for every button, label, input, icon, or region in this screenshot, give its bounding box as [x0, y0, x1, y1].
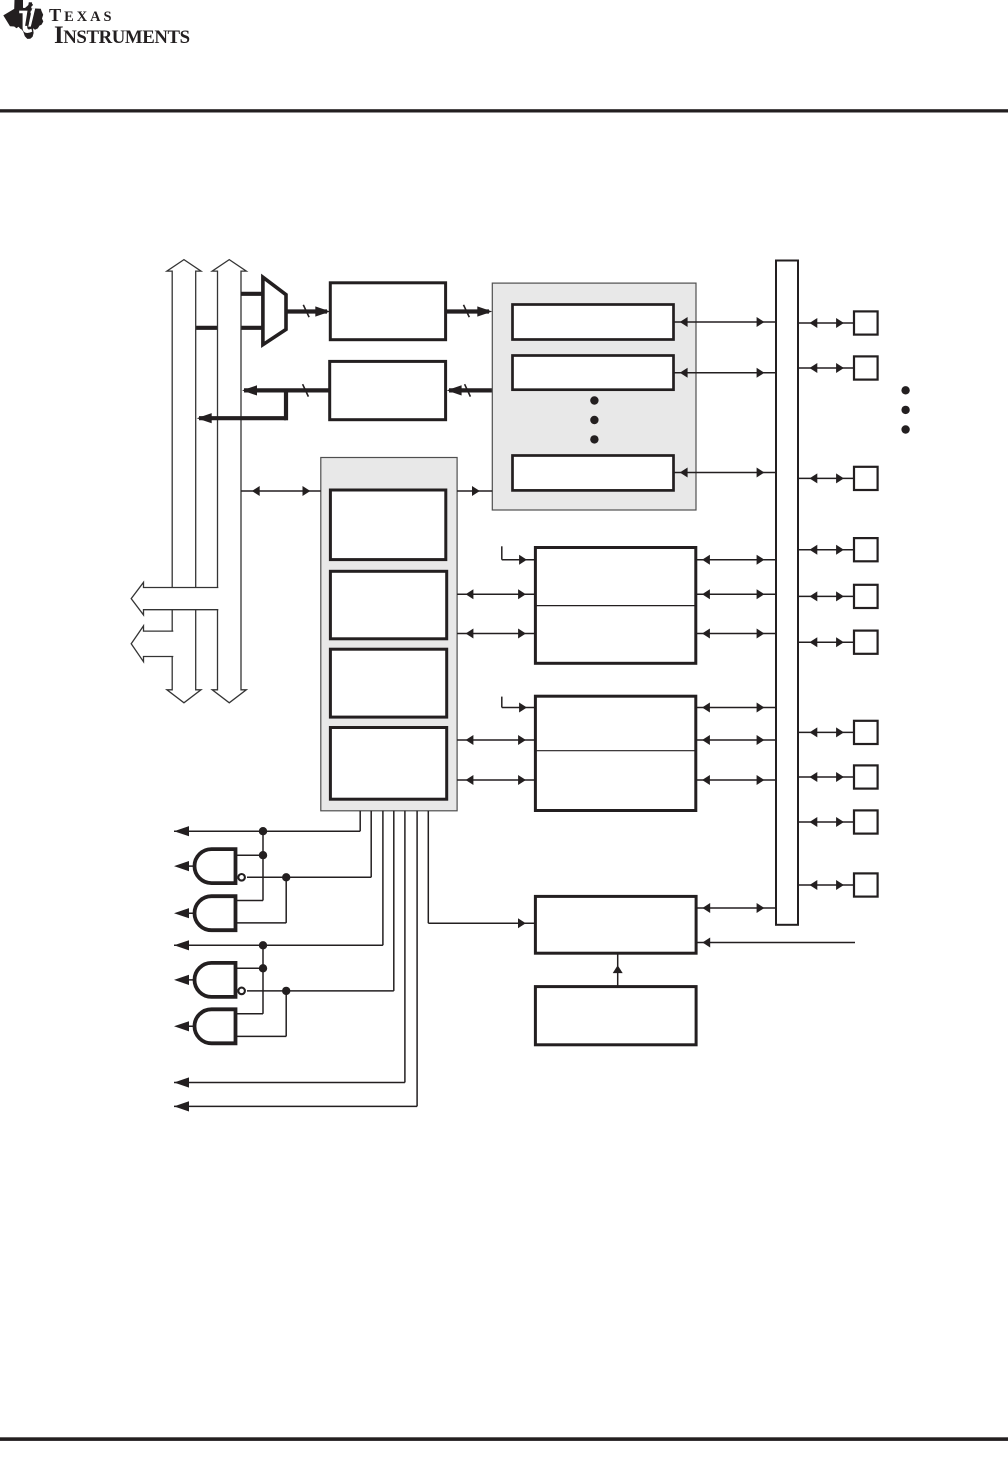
divider line in module B — [535, 750, 695, 752]
wire module A to pad bus (bidirectional) — [696, 633, 776, 635]
control register block 3 — [330, 649, 446, 717]
cell register bit 0 — [513, 305, 674, 340]
wire control line 3 stub down from control logic — [382, 811, 384, 946]
ellipsis dots right of pin squares — [901, 386, 909, 394]
junction dot net3 at gate 3 input — [259, 964, 267, 972]
wire module B to pad bus (bidirectional) — [696, 779, 776, 781]
pin square — [854, 873, 878, 896]
hollow double-headed vertical bus arrow A (address bus) — [167, 260, 201, 703]
footer rule — [0, 1437, 1008, 1441]
wire control line 4 stub down from control logic — [393, 811, 395, 991]
wire control line 4 horizontal to lower NAND gate bubble input — [247, 990, 394, 992]
wire control line 7 down then right into interrupt flag logic — [427, 811, 429, 923]
block input register — [330, 283, 445, 340]
wire port control logic to module A (bidirectional) — [457, 633, 535, 635]
header rule — [0, 109, 1008, 112]
TI logo Texas map glyph — [3, 0, 43, 39]
inverter bubble on gate input — [238, 988, 245, 995]
pin square — [854, 311, 878, 334]
wire gate output to left with arrow — [177, 1025, 195, 1027]
pad logic bus (tall vertical rectangle) — [776, 261, 798, 925]
inverter bubble on gate input — [238, 874, 245, 881]
wire mux upper data input (thick bus) — [241, 292, 264, 296]
wire port control logic to module A (bidirectional) — [457, 593, 535, 595]
wire mux output bus to input register — [286, 309, 327, 313]
wire net3 branch to AND gate 3 top input — [236, 967, 264, 969]
AND gate 1 with inverted lower input (interrupt edge select) — [195, 849, 236, 883]
wire input register output bus to input cells — [446, 309, 489, 313]
pin square — [854, 765, 878, 788]
wire control signal row 2 to left with arrow — [174, 944, 383, 946]
mux symbol (input select) — [263, 277, 286, 345]
AND gate 3 with inverted lower input — [195, 963, 236, 997]
wire net1 to AND gate 2 top input — [236, 900, 264, 902]
pin square — [854, 810, 878, 833]
container port control logic (gray group box) — [321, 458, 457, 811]
wire pad bus to pin square (bidirectional) — [798, 641, 854, 643]
svg-text:INSTRUMENTS: INSTRUMENTS — [54, 22, 190, 49]
bus-width slash on output register bus — [303, 384, 309, 396]
wire gate output to left with arrow — [177, 912, 195, 914]
wire net2 to AND gate 2 bottom input — [236, 922, 287, 924]
cell register bit 1 — [513, 356, 674, 390]
ellipsis dots inside input cells — [590, 396, 598, 404]
hollow horizontal arrow to MAB (merges from bus arrow A) — [131, 626, 174, 662]
pin square — [854, 538, 878, 561]
control register block 2 — [330, 571, 446, 639]
block output register — [330, 361, 446, 419]
pin square — [854, 467, 878, 490]
wire port control logic to module B (bidirectional) — [457, 779, 535, 781]
wire pad bus to pin square (bidirectional) — [798, 367, 854, 369]
wire pad bus to pin square (bidirectional) — [798, 322, 854, 324]
wire control signal row 1 to left with arrow — [174, 830, 360, 832]
wire external input into interrupt flag logic from right — [696, 942, 855, 944]
wire net4 to AND gate 4 bottom input — [236, 1035, 287, 1037]
wire output register to data bus arrow B (thick bus) — [244, 388, 330, 392]
wire pad bus to pin square (bidirectional) — [798, 595, 854, 597]
wire interrupt enable to flag logic with up arrow — [617, 954, 619, 987]
wire port control logic to module B (bidirectional) — [457, 739, 535, 741]
wire module B to pad bus (bidirectional) — [696, 739, 776, 741]
wire interrupt flag logic to pad bus (bidirectional) — [696, 907, 776, 909]
wire gate output to left with arrow — [177, 865, 195, 867]
block peripheral module A (two-section box) — [535, 548, 695, 664]
wire mux lower data input (thick bus, passes behind address arrow) — [196, 326, 264, 330]
wire module B to pad bus (bidirectional) — [696, 707, 776, 709]
wire control line 2 stub down from control logic — [370, 811, 372, 878]
wire net2 vertical from bubble line down — [285, 877, 287, 923]
wire cell register to pad bus (bidirectional) — [674, 321, 777, 323]
wire clock stub into module A (elbow) — [501, 546, 503, 559]
wire net1 branch to AND gate 1 top input — [236, 854, 264, 856]
wire pad bus to pin square (bidirectional) — [798, 776, 854, 778]
wire port control logic to input cells — [457, 490, 492, 492]
cell register bit n — [513, 456, 674, 491]
block interrupt flag logic — [535, 896, 696, 953]
wire data bus arrow B to port control logic (bidirectional) — [241, 490, 321, 492]
pin square — [854, 631, 878, 654]
AND gate 2 — [195, 896, 236, 930]
wire pad bus to pin square (bidirectional) — [798, 884, 854, 886]
wire branch from output register bus down/left to address arrow A (crosses over arrow B) — [284, 390, 288, 420]
wire pad bus to pin square (bidirectional) — [798, 549, 854, 551]
wire cell register to pad bus (bidirectional) — [674, 472, 777, 474]
bus-width slash on input register output — [464, 305, 470, 317]
block peripheral module B (two-section box) — [535, 696, 695, 810]
bus-width slash on output register input — [465, 384, 471, 396]
wire gate output to left with arrow — [177, 979, 195, 981]
wire control line 1 stub down from control logic — [359, 811, 361, 831]
wire from output cells into output register (thick bus) — [449, 388, 492, 392]
bus-width slash on mux output — [303, 305, 309, 317]
hollow double-headed vertical bus arrow B (data bus) — [212, 260, 246, 703]
junction dot on control line 2 — [282, 873, 290, 881]
junction dot on control row 1 — [259, 827, 267, 835]
container input cells (gray group box) — [492, 283, 696, 510]
wire clock stub into module B (elbow) — [501, 697, 503, 708]
hollow horizontal arrow to MDB (merges from bus arrow B) — [131, 582, 219, 615]
pin square — [854, 585, 878, 608]
wire net4 vertical from bubble line down — [285, 991, 287, 1037]
junction dot on control line 4 — [282, 987, 290, 995]
wire net3 vertical drop to gate inputs — [262, 945, 264, 1014]
wire control line 6 stub down and left (long bottom arrow 2) — [416, 811, 418, 1107]
block interrupt enable logic — [535, 987, 696, 1045]
control register block 4 — [330, 728, 446, 800]
divider line in module A — [535, 605, 695, 607]
wire control line 5 stub down and left (long bottom arrow 1) — [404, 811, 406, 1083]
wire net3 to AND gate 4 top input — [236, 1013, 264, 1015]
junction dot net1 at gate 1 input — [259, 851, 267, 859]
wire pad bus to pin square (bidirectional) — [798, 821, 854, 823]
wire net1 vertical drop to gate inputs — [262, 831, 264, 900]
wire pad bus to pin square (bidirectional) — [798, 731, 854, 733]
AND gate 4 — [194, 1009, 235, 1043]
pin square — [854, 356, 878, 379]
control register block 1 — [330, 490, 445, 560]
wire cell register to pad bus (bidirectional) — [674, 372, 777, 374]
wire module A to pad bus (bidirectional) — [696, 593, 776, 595]
pin square — [854, 721, 878, 744]
wire control line 2 horizontal to NAND gate bubble input — [247, 876, 371, 878]
wire pad bus to pin square (bidirectional) — [798, 477, 854, 479]
junction dot on control row 2 — [259, 941, 267, 949]
wire module A to pad bus (bidirectional) — [696, 559, 776, 561]
